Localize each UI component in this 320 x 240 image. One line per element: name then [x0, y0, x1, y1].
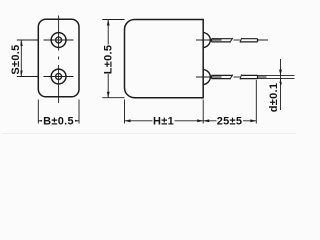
- bottom lead tail wire: [258, 76, 267, 78]
- dimension B extension lines: [38, 100, 79, 124]
- label L±0.5: [103, 45, 116, 75]
- svg-text:B±0.5: B±0.5: [43, 116, 74, 128]
- hole H1 outer circle: [51, 33, 66, 48]
- dimension L arrows: [107, 20, 110, 98]
- dimension L line: [107, 20, 109, 98]
- capacitor body outline (side view): [125, 20, 204, 98]
- top lead wire segment 1: [212, 39, 233, 42]
- svg-text:25±5: 25±5: [217, 116, 243, 128]
- plate vertical centerline: [58, 16, 60, 104]
- svg-text:d±0.1: d±0.1: [268, 83, 280, 113]
- dimension H extension lines: [125, 100, 204, 124]
- top lead break cut 1: [230, 38, 233, 43]
- dimension B line: [38, 120, 79, 122]
- label B±0.5: [42, 116, 75, 127]
- dimension 25 arrows: [203, 119, 256, 122]
- dimension 25 extension line: [255, 80, 257, 124]
- dimension S line: [20, 40, 22, 77]
- dimension B arrows: [38, 119, 79, 122]
- bottom lead centerline at body: [196, 76, 222, 78]
- dimension H line: [125, 120, 204, 122]
- svg-text:H±1: H±1: [153, 116, 174, 128]
- svg-text:L±0.5: L±0.5: [103, 45, 115, 75]
- label 25±5: [217, 116, 244, 127]
- hole crosshair bottom: [44, 76, 74, 78]
- top lead wire segment 2: [240, 39, 257, 42]
- top lead tail wire: [258, 39, 269, 41]
- top lead break cut 2: [240, 38, 242, 43]
- top lead break centerline: [234, 39, 240, 41]
- faint scan line: [2, 133, 296, 134]
- hole crosshair top: [44, 39, 74, 41]
- bottom lead wire segment 1: [212, 75, 233, 78]
- bottom lead wire segment 2: [240, 75, 257, 78]
- dimension S arrows: [20, 40, 23, 77]
- svg-text:S±0.5: S±0.5: [10, 44, 22, 74]
- label H±1: [153, 116, 175, 127]
- dimension d arrows: [279, 70, 282, 85]
- bottom lead break cut 2: [240, 75, 242, 80]
- dimension 25 line: [203, 120, 256, 122]
- hole H2 outer circle: [51, 69, 66, 84]
- hole H2 inner circle: [56, 74, 62, 80]
- bottom lead break cut 1: [230, 75, 233, 80]
- top lead exit dome: [203, 32, 210, 47]
- dimension L extension lines: [102, 20, 124, 98]
- bottom lead break centerline: [234, 76, 240, 78]
- dimension d extension lines: [258, 75, 295, 78]
- label S±0.5: [10, 43, 21, 75]
- top lead centerline at body: [196, 39, 222, 41]
- bottom lead exit dome: [203, 69, 210, 84]
- dimension S extension lines: [17, 40, 38, 77]
- dimension d line: [280, 59, 282, 110]
- mounting plate outline (front view): [38, 19, 79, 97]
- label d±0.1: [268, 83, 280, 112]
- dimension H arrows: [125, 119, 204, 122]
- hole H1 inner circle: [56, 37, 62, 43]
